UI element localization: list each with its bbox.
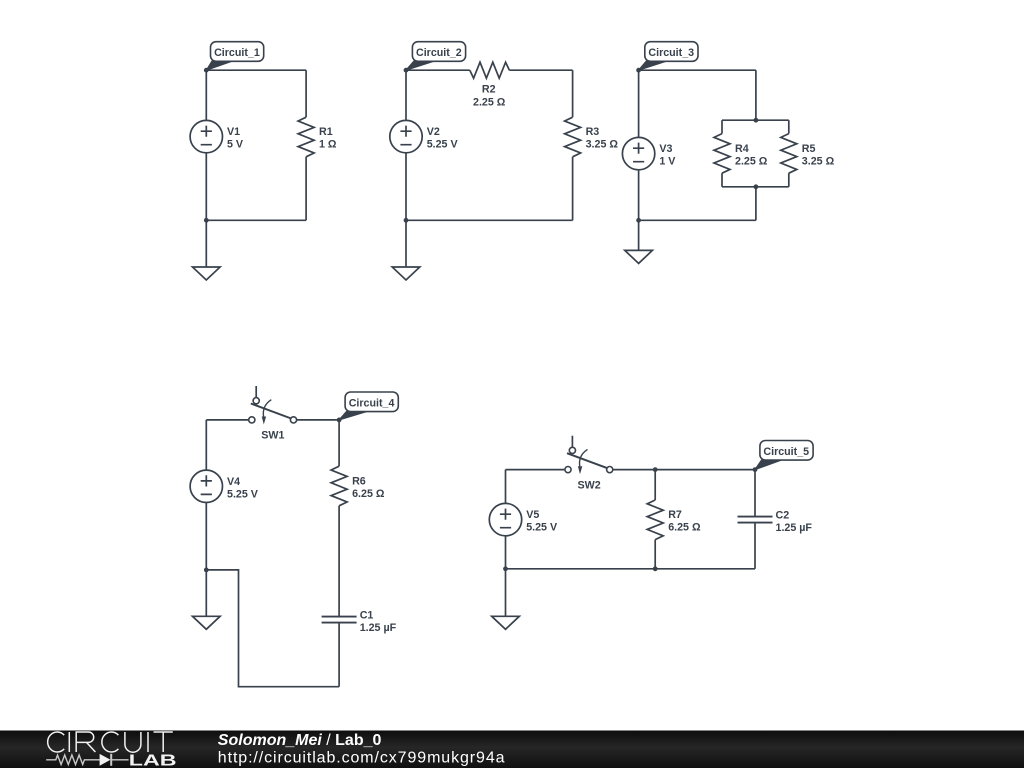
svg-text:Circuit_3: Circuit_3	[648, 47, 694, 59]
svg-text:5.25 V: 5.25 V	[526, 522, 558, 534]
label callout Circuit_4	[339, 392, 398, 420]
svg-text:1 Ω: 1 Ω	[319, 139, 337, 151]
node bottom-left C2	[404, 218, 409, 223]
node top-right C4	[337, 418, 342, 423]
svg-text:R2: R2	[482, 83, 496, 95]
wire V3 bottom lead	[638, 170, 640, 221]
svg-text:Circuit_5: Circuit_5	[763, 446, 809, 458]
svg-text:1 V: 1 V	[659, 155, 676, 167]
svg-text:R4: R4	[735, 143, 749, 155]
wire R7 bottom lead	[654, 540, 656, 569]
svg-text:SW1: SW1	[261, 430, 284, 442]
label callout Circuit_2	[406, 42, 466, 70]
wire V4 bottom lead	[205, 503, 207, 570]
wire R1 bottom lead	[305, 157, 307, 221]
wire switch to C2 rail C5	[613, 469, 755, 471]
ground C3	[625, 250, 653, 263]
wire parallel bottom drop	[755, 187, 757, 221]
wire R6 to C1	[338, 506, 340, 616]
svg-text:V4: V4	[227, 476, 240, 488]
wire C1 bottom lead	[338, 623, 340, 687]
svg-text:SW2: SW2	[578, 479, 601, 491]
svg-text:Circuit_4: Circuit_4	[349, 397, 396, 409]
svg-text:5.25 V: 5.25 V	[227, 488, 259, 500]
node R7 bottom C5	[653, 566, 658, 571]
resistor R6	[331, 466, 347, 506]
node bottom-left C4	[204, 568, 209, 573]
voltage source V1	[190, 120, 222, 152]
wire switch to node C4	[297, 419, 340, 421]
wire parallel bottom bar	[722, 186, 789, 188]
svg-text:6.25 Ω: 6.25 Ω	[352, 488, 385, 500]
wire bottom rail C2	[406, 219, 573, 221]
wire left rail upper (V1 top lead)	[205, 70, 207, 120]
wire left rail upper (V4 top lead)	[205, 420, 207, 470]
wire ground stub C5	[505, 569, 507, 617]
svg-text:5 V: 5 V	[227, 139, 244, 151]
svg-text:Circuit_2: Circuit_2	[416, 47, 462, 59]
wire R3 top lead	[572, 70, 574, 117]
switch SW2	[565, 436, 613, 475]
footer background	[0, 0, 1, 1]
svg-text:1.25 µF: 1.25 µF	[360, 622, 397, 634]
logo CIRCUIT (hand-drawn thin letters)	[48, 732, 173, 752]
wire bottom rail C3	[639, 219, 756, 221]
resistor R2 (horizontal)	[470, 62, 510, 78]
svg-text:LAB: LAB	[129, 752, 177, 768]
wire left rail upper (V3 top lead)	[638, 70, 640, 137]
ground C4	[193, 616, 221, 629]
svg-text:V2: V2	[427, 126, 440, 138]
svg-text:C2: C2	[776, 510, 790, 522]
svg-text:C1: C1	[360, 610, 374, 622]
resistor R1	[298, 117, 314, 157]
wire parallel top bar	[722, 119, 789, 121]
wire bottom rail C1	[206, 219, 306, 221]
ground C2	[392, 267, 420, 280]
svg-text:V5: V5	[526, 509, 539, 521]
voltage source V3	[622, 137, 654, 169]
node bottom-left C3	[636, 218, 641, 223]
wire bottom rail C5	[506, 568, 756, 570]
wire C2 top lead	[754, 470, 756, 517]
wire ground stub C1	[205, 220, 207, 267]
label callout Circuit_5	[755, 441, 813, 470]
svg-text:R7: R7	[668, 509, 682, 521]
wire left rail upper (V2 top lead)	[405, 70, 407, 120]
wire R7 top lead	[654, 470, 656, 500]
svg-text:5.25 V: 5.25 V	[427, 139, 459, 151]
node bottom-left C5	[503, 566, 508, 571]
resistor R5	[781, 134, 797, 174]
svg-text:Circuit_1: Circuit_1	[214, 47, 260, 59]
resistor R4	[714, 134, 730, 174]
ground C5	[492, 616, 520, 629]
svg-text:Solomon_Mei / Lab_0: Solomon_Mei / Lab_0	[218, 732, 382, 749]
wire V1 bottom lead	[205, 153, 207, 221]
wire V5 bottom lead	[505, 536, 507, 569]
wire left rail upper (V5 top lead)	[505, 470, 507, 504]
label callout Circuit_1	[206, 42, 263, 70]
label callout Circuit_3	[639, 42, 698, 70]
wire ground stub C3	[638, 220, 640, 250]
wire top rail C1	[206, 69, 306, 71]
voltage source V2	[390, 120, 422, 152]
wire top rail left to switch C4	[206, 419, 248, 421]
svg-text:3.25 Ω: 3.25 Ω	[802, 155, 835, 167]
svg-text:R3: R3	[586, 126, 600, 138]
wire R1 top lead	[305, 70, 307, 117]
wire top rail right C2	[509, 69, 572, 71]
svg-text:1.25 µF: 1.25 µF	[776, 522, 813, 534]
svg-text:R5: R5	[802, 143, 816, 155]
node C2 top C5	[753, 467, 758, 472]
node top-left C2	[404, 68, 409, 73]
node top-left C1	[204, 68, 209, 73]
svg-text:2.25 Ω: 2.25 Ω	[473, 97, 506, 109]
wire R5 top lead	[788, 120, 790, 133]
node R7 top C5	[653, 467, 658, 472]
voltage source V4	[190, 470, 222, 502]
wire R3 bottom lead	[572, 157, 574, 221]
resistor R3	[565, 117, 581, 157]
wire right drop to parallel top	[755, 70, 757, 120]
node parallel bottom C3	[754, 184, 759, 189]
ground C1	[193, 267, 221, 280]
svg-text:V3: V3	[659, 143, 672, 155]
wire R4 top lead	[721, 120, 723, 133]
node bottom-left C1	[204, 218, 209, 223]
node parallel top C3	[754, 118, 759, 123]
svg-text:3.25 Ω: 3.25 Ω	[586, 139, 619, 151]
wire R6 top lead	[338, 420, 340, 466]
wire ground stub C2	[405, 220, 407, 267]
svg-text:R1: R1	[319, 126, 333, 138]
wire R4 bottom lead	[721, 173, 723, 187]
resistor R7	[647, 500, 663, 540]
logo resistor-diode glyph	[46, 754, 128, 766]
capacitor C1	[322, 617, 357, 623]
svg-text:http://circuitlab.com/cx799muk: http://circuitlab.com/cx799mukgr94a	[218, 749, 506, 766]
wire V2 bottom lead	[405, 153, 407, 221]
voltage source V5	[489, 503, 521, 535]
svg-text:2.25 Ω: 2.25 Ω	[735, 155, 768, 167]
wire top rail C3	[639, 69, 756, 71]
capacitor C2	[738, 517, 773, 523]
logo diode triangle	[100, 754, 111, 766]
wire top rail left to switch C5	[506, 469, 565, 471]
wire top rail left C2	[406, 69, 470, 71]
svg-text:R6: R6	[352, 476, 366, 488]
node top-left C3	[636, 68, 641, 73]
svg-text:6.25 Ω: 6.25 Ω	[668, 522, 701, 534]
switch SW1	[249, 386, 297, 425]
wire ground stub C4	[205, 570, 207, 616]
wire bottom rail C4	[206, 570, 339, 687]
svg-text:V1: V1	[227, 126, 240, 138]
wire R5 bottom lead	[788, 173, 790, 187]
wire C2 bottom lead	[754, 523, 756, 569]
